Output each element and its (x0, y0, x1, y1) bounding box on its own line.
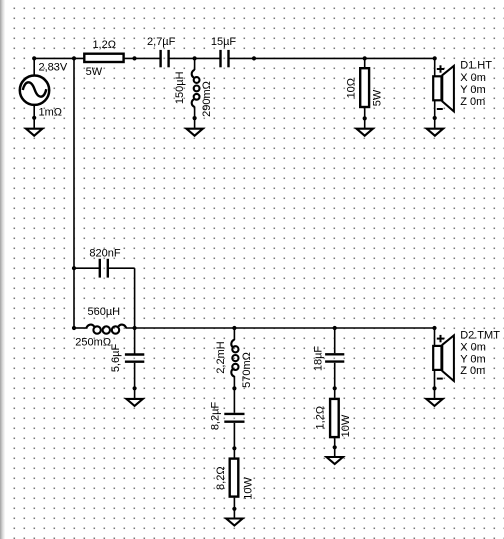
ground at R2 (357, 129, 373, 136)
junction node D1 bottom (433, 116, 437, 120)
capacitor C2 15µF (221, 50, 229, 67)
capacitor C5 8,2µF (224, 414, 244, 422)
capacitor C3 820nF (100, 259, 108, 278)
inductor L2 560µH 250mΩ (series bottom bus) (86, 325, 126, 334)
wire D1 bottom lead to ground (434, 100, 436, 128)
junction node L3 tap (232, 326, 236, 330)
svg-text:10W: 10W (340, 414, 352, 437)
wire R3 bottom lead to ground (233, 498, 235, 519)
ground at D2 (426, 399, 442, 406)
svg-text:8,2µF: 8,2µF (209, 402, 221, 431)
plus terminal mark (437, 335, 444, 342)
junction node R2 bottom (363, 116, 367, 120)
wire bottom bus segment B (coil L2 to speaker D2) (126, 327, 435, 329)
wire source bottom lead to ground (33, 104, 35, 129)
ground at R4 (327, 457, 343, 464)
wire top bus segment A (source node to C1 left plate) (34, 57, 161, 59)
resistor R3 8,2Ω 10W (230, 459, 239, 497)
wire R4 bottom lead to ground (334, 438, 336, 457)
voltage source V1 (20, 76, 49, 105)
svg-text:1mΩ: 1mΩ (39, 106, 63, 118)
wire C6 to R4 lead (334, 363, 336, 398)
wire R2 top lead (364, 58, 366, 67)
svg-text:Y 0m: Y 0m (460, 353, 485, 365)
junction node C6-R4 (333, 386, 337, 390)
wire R2 bottom lead to ground (364, 108, 366, 129)
svg-text:1,2Ω: 1,2Ω (314, 406, 326, 430)
junction node R1-C1 (132, 56, 136, 60)
svg-text:8,2Ω: 8,2Ω (215, 466, 227, 490)
resistor R4 1,2Ω 10W (330, 399, 339, 437)
capacitor C1 2,7µF (161, 50, 169, 67)
junction node L2-C4 (133, 326, 137, 330)
wire 820nF branch left (74, 267, 100, 269)
speaker D1.HT (433, 65, 454, 111)
resistor R1 1,2Ω 5W (series top) (84, 54, 123, 62)
svg-text:2,7µF: 2,7µF (147, 36, 176, 48)
junction node bottom bus left (72, 326, 76, 330)
wire 820nF right leg down to bottom bus (134, 268, 136, 328)
svg-text:560µH: 560µH (87, 306, 120, 318)
junction node D1 tap (433, 56, 437, 60)
ground at source (26, 129, 42, 136)
svg-text:D1.HT: D1.HT (460, 60, 492, 72)
junction node C4 bottom (133, 386, 137, 390)
wire vertical feed (top bus to bottom bus) (73, 58, 75, 328)
svg-text:15µF: 15µF (211, 36, 237, 48)
wire L3 top lead (233, 328, 235, 340)
wire L3 to C5 lead (233, 376, 235, 413)
inductor L3 2,2mH 570mΩ (231, 340, 238, 377)
inductor L1 150µH 290mΩ (shunt to ground) (192, 70, 200, 107)
wire bottom bus segment A (feed to coil L2) (74, 327, 88, 329)
ground at D1 (427, 129, 443, 136)
junction node R2 tap (363, 56, 367, 60)
junction node at source top (32, 56, 36, 60)
wire C6 top lead (334, 328, 336, 353)
svg-text:290mΩ: 290mΩ (201, 81, 213, 117)
capacitor C6 18µF (325, 354, 344, 361)
junction node after C2 (252, 56, 256, 60)
svg-text:Y 0m: Y 0m (460, 84, 485, 96)
junction node C6 tap (333, 326, 337, 330)
minus terminal mark (437, 378, 443, 380)
svg-text:Z 0m: Z 0m (460, 365, 485, 377)
svg-text:820nF: 820nF (89, 247, 120, 259)
wire C4 top lead (134, 328, 136, 354)
svg-text:5,6µF: 5,6µF (110, 344, 122, 373)
svg-text:5W: 5W (86, 66, 103, 78)
wire L1 top lead (194, 58, 196, 70)
junction node C1-L1 (193, 56, 197, 60)
wire D2 bottom lead to ground (434, 370, 436, 399)
svg-text:10Ω: 10Ω (346, 78, 358, 98)
wire C4 bottom lead to ground (134, 363, 136, 399)
wire 820nF branch right (108, 267, 135, 269)
junction node R3 bottom (232, 507, 236, 511)
junction node D2 tap (432, 326, 436, 330)
wire C5 to R3 lead (233, 423, 235, 458)
wire source top lead (33, 58, 35, 76)
svg-text:X 0m: X 0m (460, 72, 486, 84)
svg-text:D2.TMT: D2.TMT (460, 329, 500, 341)
minus terminal mark (437, 108, 443, 110)
junction node L3-C5 (232, 386, 236, 390)
junction node source bottom (32, 116, 36, 120)
svg-text:1,2Ω: 1,2Ω (92, 39, 116, 51)
junction node feed tap (72, 56, 76, 60)
plus terminal mark (437, 65, 444, 72)
wire L1 bottom lead to ground (194, 107, 196, 129)
svg-text:5W: 5W (372, 89, 384, 106)
svg-text:X 0m: X 0m (460, 341, 486, 353)
ground at R3 (226, 519, 242, 526)
ground at L1 (186, 129, 202, 136)
svg-text:2,2mH: 2,2mH (215, 341, 227, 373)
svg-text:10W: 10W (242, 476, 254, 499)
ground at C4 (126, 399, 142, 406)
junction node R4 bottom (333, 445, 337, 449)
svg-text:Z 0m: Z 0m (460, 96, 485, 108)
resistor R2 10Ω 5W (shunt) (360, 68, 369, 107)
svg-text:18µF: 18µF (312, 346, 324, 372)
wire D1 top lead (434, 58, 436, 76)
svg-text:150µH: 150µH (174, 71, 186, 104)
wire top bus segment B (C1 right plate to C2 left plate) (168, 57, 221, 59)
junction node L1 bottom (193, 116, 197, 120)
svg-text:570mΩ: 570mΩ (241, 352, 253, 388)
svg-text:2,83V: 2,83V (39, 61, 68, 73)
wire D2 top lead (434, 328, 436, 346)
junction node D2 bottom (432, 386, 436, 390)
wire top bus segment C (C2 right plate to speaker D1) (228, 57, 435, 59)
junction node C5-R3 (232, 446, 236, 450)
speaker D2.TMT (433, 335, 454, 381)
capacitor C4 5,6µF (shunt) (125, 355, 144, 362)
svg-text:250mΩ: 250mΩ (75, 336, 111, 348)
junction node 820nF left (72, 266, 76, 270)
